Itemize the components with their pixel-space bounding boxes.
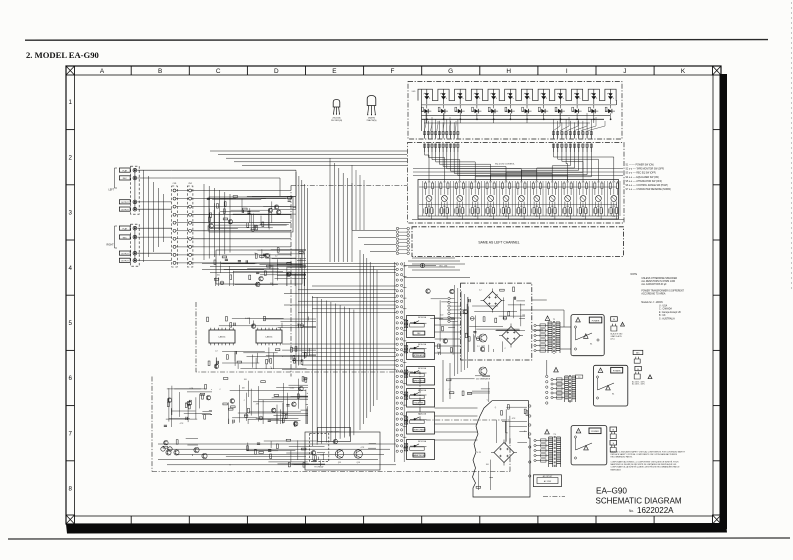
svg-text:REC: REC: [123, 237, 128, 239]
svg-text:2. MODEL EA-G90: 2. MODEL EA-G90: [26, 50, 99, 60]
svg-text:8.2K: 8.2K: [551, 216, 554, 218]
power supply feed cluster (center right): [426, 289, 455, 355]
svg-text:4.7K: 4.7K: [361, 447, 365, 449]
value labels under bottom resistors: [428, 216, 615, 218]
svg-text:10K: 10K: [582, 182, 585, 184]
remote control outlet box: [533, 475, 561, 487]
svg-text:RIGHT: RIGHT: [107, 245, 115, 247]
svg-text:10K: 10K: [566, 206, 569, 208]
svg-text:AC 120V: AC 120V: [544, 480, 552, 483]
svg-text:RECOMMENDED PARTS.: RECOMMENDED PARTS.: [611, 456, 633, 459]
T1 primary taps: [534, 324, 548, 352]
wire verticals upper center second group: [352, 165, 364, 230]
grid column ticks bottom: [131, 516, 654, 524]
bottom shadow bar: [66, 523, 727, 534]
value labels EQ columns: [428, 182, 616, 209]
wire horizontal bus lower: [158, 444, 396, 465]
svg-text:1622022A: 1622022A: [637, 506, 674, 515]
svg-text:100: 100: [486, 464, 489, 466]
svg-text:POWER: POWER: [613, 371, 621, 373]
svg-text:CN2: CN2: [188, 183, 192, 185]
svg-text:10K: 10K: [458, 206, 461, 208]
grid column letters top ruler: [100, 68, 686, 75]
svg-text:A/C: A/C: [636, 352, 640, 355]
svg-text:4: 4: [68, 265, 72, 272]
svg-text:100: 100: [551, 182, 554, 184]
svg-text:SW S4-10A: SW S4-10A: [418, 389, 427, 392]
slide volume resistors VR1-VR13: [426, 196, 617, 202]
svg-text:10K: 10K: [505, 206, 508, 208]
svg-text:REC: REC: [417, 333, 421, 335]
op-amp IC2: [256, 328, 282, 345]
svg-text:10K: 10K: [474, 206, 477, 208]
svg-text:22K: 22K: [597, 182, 600, 184]
component area inner rect EQ board: [418, 180, 619, 220]
svg-text:B: B: [158, 68, 162, 75]
headphone jack J3: [161, 438, 198, 456]
svg-text:15K: 15K: [582, 216, 585, 218]
svg-text:1K: 1K: [521, 216, 523, 218]
wire long horizontal under right channel board: [404, 277, 470, 279]
wire horizontal bus upper to EQ board: [210, 151, 407, 165]
models list: [641, 301, 681, 321]
safety warning fine print: [611, 451, 686, 472]
input selector transistor cluster far left: [164, 385, 212, 428]
junction dots LED bus: [426, 119, 611, 120]
svg-text:LA3161: LA3161: [219, 336, 227, 339]
switch S6 control range: [407, 412, 435, 434]
register mark bottom-left: [66, 515, 75, 524]
svg-text:47K: 47K: [551, 206, 554, 208]
svg-text:SW S5-10A: SW S5-10A: [418, 343, 427, 346]
comb ticks bottom row EQ board: [424, 209, 618, 214]
mains plug J/U/C: [611, 317, 625, 341]
amplifier stage cluster upper (tone control): [207, 196, 296, 232]
muting relay block: [305, 432, 380, 470]
bridge rectifier D23: [494, 443, 514, 463]
svg-text:OUTPUT: OUTPUT: [121, 253, 130, 255]
bridge rectifier D21: [484, 292, 502, 310]
svg-text:PLAY: PLAY: [122, 169, 127, 172]
svg-text:330: 330: [582, 206, 585, 208]
svg-text:S2 o-o ---- TAPE MONITOR SW (O: S2 o-o ---- TAPE MONITOR SW (OFF): [626, 168, 665, 171]
output transistors Q7 Q8: [166, 447, 207, 458]
svg-text:330: 330: [428, 206, 431, 208]
bottom rule line: [8, 538, 790, 539]
connector pin column left of right-channel board: [396, 227, 409, 254]
svg-text:I: I: [566, 68, 568, 75]
svg-text:B : UK: B : UK: [659, 315, 666, 317]
connector jack to left channel: [404, 263, 448, 267]
LED array D1-D12: [424, 89, 614, 104]
regulator transistor Q21: [479, 334, 487, 348]
svg-text:4.7K: 4.7K: [535, 182, 538, 184]
svg-text:PLAY: PLAY: [122, 227, 127, 230]
svg-text:C: C: [216, 68, 221, 75]
svg-text:100: 100: [320, 454, 323, 456]
svg-text:47K: 47K: [520, 206, 523, 208]
svg-text:7: 7: [68, 430, 72, 437]
svg-text:RY1 RELAY: RY1 RELAY: [314, 466, 324, 469]
svg-text:2SA733(N): 2SA733(N): [367, 119, 377, 122]
transistor package drawing 2SC1845: [331, 100, 342, 123]
wire verticals LED board to pins: [425, 111, 611, 131]
svg-text:D21 GENERATOR: D21 GENERATOR: [476, 378, 491, 381]
svg-text:Q: Q: [495, 407, 497, 409]
wire spine bundle main verticals: [313, 296, 354, 446]
grid row ticks left: [66, 130, 75, 461]
svg-text:15K: 15K: [505, 216, 508, 218]
svg-text:1K: 1K: [444, 216, 446, 218]
board outline LED display PCB: [408, 82, 622, 140]
connector pins LED board bottom left: [424, 131, 460, 139]
dash-dot page divider bottom right: [543, 496, 565, 498]
svg-text:EA–G90: EA–G90: [596, 487, 627, 496]
svg-text:S5 o-o ---- ATTENUATOR SW (OFF: S5 o-o ---- ATTENUATOR SW (OFF): [626, 180, 663, 183]
T2 primary taps: [551, 378, 565, 399]
svg-text:Q15: Q15: [338, 462, 341, 464]
svg-text:G: G: [448, 68, 453, 75]
wire horizontal bundle to pin ladder mid: [282, 344, 396, 369]
svg-text:2.2: 2.2: [275, 256, 278, 258]
svg-text:S1: S1: [590, 344, 592, 346]
svg-text:6: 6: [68, 375, 72, 382]
svg-text:4.7K: 4.7K: [612, 182, 615, 184]
svg-text:R: R: [506, 433, 508, 435]
input jack group RIGHT channel: [107, 224, 140, 266]
svg-text:MAINTENIR LE DEGRÉ DE SÉCURITÉ: MAINTENIR LE DEGRÉ DE SÉCURITÉ DE L'APPA…: [611, 463, 677, 466]
svg-text:ATTENUATOR: ATTENUATOR: [414, 354, 425, 357]
svg-text:C : CANADA: C : CANADA: [659, 308, 672, 311]
svg-text:4.7K: 4.7K: [489, 182, 492, 184]
wire columns inside EQ board: [423, 181, 620, 216]
phones jack sub-circuit: [318, 428, 351, 442]
svg-text:AC 240V – 50Hz: AC 240V – 50Hz: [632, 383, 645, 386]
svg-text:E: E: [332, 68, 336, 75]
switch S3 REC EQ: [407, 316, 435, 338]
svg-text:47K: 47K: [597, 206, 600, 208]
wire stubs pin column to verticals: [450, 299, 468, 322]
wire bus switches to power boards: [435, 300, 547, 440]
svg-text:470: 470: [536, 216, 539, 218]
power transformer T1: [548, 319, 560, 354]
svg-text:4.7K: 4.7K: [458, 182, 461, 184]
wire harness input jacks to CN1/CN2: [137, 170, 171, 262]
svg-text:Models for J : JAPAN: Models for J : JAPAN: [641, 301, 663, 304]
svg-text:S : AUSTRALIA: S : AUSTRALIA: [659, 318, 675, 321]
svg-text:Q16: Q16: [357, 462, 360, 464]
pin column right of lower board: [529, 405, 531, 477]
wire fan EQ board left header to sliders: [425, 152, 568, 181]
power plug unit 2 (Europe): [594, 365, 628, 406]
connector pin column power feed: [448, 297, 450, 322]
svg-text:10K: 10K: [566, 182, 569, 184]
svg-text:C: C: [219, 389, 221, 391]
svg-text:A: A: [100, 68, 105, 75]
relay driver transistors Q15 Q16: [333, 439, 376, 463]
grid row numbers left ruler: [68, 99, 72, 492]
connector pins LED board bottom right: [552, 131, 592, 139]
svg-text:S6 o-o ---- CONTROL RANGE SW (: S6 o-o ---- CONTROL RANGE SW (HIGH): [626, 184, 669, 187]
svg-text:SAME AS LEFT CHANNEL: SAME AS LEFT CHANNEL: [478, 240, 519, 244]
warning triangle T3: [545, 429, 550, 434]
svg-text:POWER TRANSFORMER IS DIFFERENT: POWER TRANSFORMER IS DIFFERENT: [641, 289, 684, 292]
register mark bottom-right: [713, 515, 722, 524]
wire verticals upper center: [330, 158, 352, 262]
svg-text:8.2K: 8.2K: [489, 216, 492, 218]
svg-text:2.2: 2.2: [477, 346, 480, 348]
svg-text:CONTROL RANGE: CONTROL RANGE: [412, 428, 425, 431]
note text block: [631, 273, 685, 295]
long horizontals above EQ inner rect: [413, 169, 623, 176]
main PCB boundary outline: [152, 186, 510, 472]
svg-text:S1: S1: [612, 394, 614, 396]
wire T1 secondary to plug unit 1: [520, 310, 571, 349]
wire spine bundle A: [296, 172, 308, 368]
wire ladder verticals near switches: [395, 262, 404, 462]
svg-text:COMPOSANTS AU SYMBOL ⚠ COMPORT: COMPOSANTS AU SYMBOL ⚠ COMPORTENT CRITIQ…: [611, 461, 680, 464]
grid column ticks top: [131, 66, 654, 75]
wire verticals right-center: [360, 250, 377, 430]
svg-text:SW S2-10A: SW S2-10A: [418, 367, 427, 370]
svg-text:C: C: [270, 367, 272, 369]
connector header CN4 top-right of EQ board: [552, 144, 592, 153]
svg-text:POWER: POWER: [591, 431, 599, 433]
svg-text:LEFT: LEFT: [109, 189, 115, 191]
svg-text:C: C: [505, 348, 507, 350]
wire horizontal bundle to pin ladder upper: [284, 286, 396, 313]
svg-text:S3 o-o ---- REC EQ SW (OFF): S3 o-o ---- REC EQ SW (OFF): [626, 173, 657, 175]
svg-text:H: H: [506, 68, 511, 75]
driver stage cluster left: [219, 377, 308, 427]
svg-text:NOTE: NOTE: [631, 273, 638, 276]
title text no 1622022A: [629, 506, 674, 515]
svg-text:100: 100: [440, 315, 443, 317]
wire fan EQ board right header to sliders: [475, 152, 614, 181]
svg-text:C: C: [449, 389, 451, 391]
svg-text:OUTPUT: OUTPUT: [121, 209, 130, 211]
wire fan LED board bus to left pins: [425, 113, 456, 131]
switch S5 attenuator: [407, 343, 435, 360]
svg-text:10K: 10K: [443, 182, 446, 184]
svg-text:K: K: [681, 68, 686, 75]
svg-text:3: 3: [68, 210, 72, 217]
svg-text:1K: 1K: [428, 216, 430, 218]
wire top jack rows continue right: [172, 170, 296, 196]
board outline right channel (same as left): [412, 227, 623, 257]
svg-text:COMPOSANTS À LA SÛRETÉ QU'AVEC: COMPOSANTS À LA SÛRETÉ QU'AVEC DES PIÈCE…: [611, 466, 681, 469]
warning triangle T2: [554, 367, 559, 372]
svg-text:E : Europe Except UK: E : Europe Except UK: [659, 311, 681, 314]
lower power board cluster: [476, 405, 528, 490]
svg-text:No.: No.: [629, 509, 634, 513]
transistor package drawing 2SA992: [367, 96, 377, 123]
svg-text:4.7K: 4.7K: [474, 182, 477, 184]
wire horizontals inside EQ board: [419, 187, 617, 205]
svg-text:15K: 15K: [613, 216, 616, 218]
svg-text:5: 5: [68, 320, 72, 327]
svg-text:UNLESS OTHERWISE SPECIFIED: UNLESS OTHERWISE SPECIFIED: [641, 278, 677, 280]
wire links to right channel board: [352, 231, 396, 252]
svg-text:4.7K: 4.7K: [504, 182, 507, 184]
svg-text:D: D: [274, 68, 279, 75]
svg-text:2: 2: [68, 154, 72, 161]
input jack group LEFT channel: [109, 166, 140, 214]
svg-text:10K: 10K: [428, 182, 431, 184]
register mark top-left: [66, 66, 75, 75]
svg-text:(TO L CH): (TO L CH): [439, 266, 448, 268]
amplifier stage cluster buffer: [214, 248, 306, 287]
svg-text:8: 8: [68, 486, 72, 493]
svg-text:TAPE MONITOR: TAPE MONITOR: [413, 379, 426, 382]
svg-text:POWER SUPPLY: POWER SUPPLY: [327, 432, 341, 434]
power transformer T3: [549, 434, 561, 468]
svg-text:AC OUTLET: AC OUTLET: [543, 475, 552, 478]
resistor row below sliders EQ board: [425, 202, 617, 214]
svg-text:8.2K: 8.2K: [474, 216, 477, 218]
svg-text:2.2: 2.2: [215, 351, 218, 353]
svg-text:S4 o-o ---- EQUALIZER SW (ON): S4 o-o ---- EQUALIZER SW (ON): [626, 176, 660, 179]
svg-text:U : USA: U : USA: [659, 304, 668, 307]
bridge rectifier D22: [502, 327, 520, 345]
svg-text:100: 100: [217, 275, 220, 277]
svg-text:T3: T3: [553, 434, 556, 436]
connector pin ladder left of switches: [396, 263, 403, 453]
svg-text:1K: 1K: [598, 216, 600, 218]
wire bundle CN strips to main board: [176, 191, 291, 263]
grid row ticks right: [713, 130, 721, 461]
legend switch position list: [626, 165, 672, 191]
regulator transistor Q22: [476, 367, 491, 381]
top rule line: [25, 39, 768, 42]
svg-text:REPLACE SAFETY CRITICAL COMPON: REPLACE SAFETY CRITICAL COMPONENTS ONLY …: [611, 453, 678, 456]
switch S4 equalizer: [407, 389, 435, 408]
svg-text:MARKED ⚠ INDICATES SAFETY CRIT: MARKED ⚠ INDICATES SAFETY CRITICAL COMPO…: [611, 451, 686, 454]
svg-text:EQ & LED CONTROL: EQ & LED CONTROL: [495, 164, 515, 166]
pin ladder left of T2: [546, 360, 548, 404]
A/C selector boxes: [632, 350, 652, 385]
power board components cluster: [463, 287, 525, 352]
resistor pairs above sliders EQ board: [424, 181, 618, 195]
svg-text:10K: 10K: [242, 388, 246, 390]
power supply PCB outline upper: [461, 283, 532, 360]
svg-text:8.2K: 8.2K: [458, 216, 461, 218]
svg-text:SW S6-10A: SW S6-10A: [418, 413, 427, 416]
power plug unit 3 (UK/Australia): [571, 426, 607, 465]
wire fan LED board bus to right pins: [554, 113, 606, 131]
svg-text:10K: 10K: [302, 253, 306, 255]
switch S2 tape monitor: [407, 367, 435, 386]
power supply PCB outline lower: [473, 401, 531, 497]
svg-text:100: 100: [244, 379, 247, 381]
svg-text:4.7K: 4.7K: [477, 452, 481, 454]
svg-text:SW S7-10A: SW S7-10A: [418, 440, 427, 443]
svg-text:Q: Q: [307, 378, 309, 380]
svg-text:2.2: 2.2: [479, 290, 482, 292]
board outline EQ amplifier PCB: [408, 143, 625, 224]
svg-text:47K: 47K: [489, 206, 492, 208]
wire bus right channel board to power area: [408, 258, 465, 270]
driver stage sub-board outline: [196, 302, 510, 420]
wire zigzag LED supply bus: [418, 89, 617, 105]
switch S7 character reverse: [407, 440, 435, 460]
wire verticals left-center: [204, 184, 230, 260]
connector strip CN1: [172, 186, 178, 267]
svg-text:J: J: [623, 68, 626, 75]
right shadow bar: [720, 74, 728, 529]
svg-text:S1 -------- POWER SW (ON): S1 -------- POWER SW (ON): [626, 165, 654, 167]
wire bus LED board horizontals: [422, 89, 617, 131]
T3 primary taps: [534, 439, 549, 462]
components around IC1 IC2: [207, 316, 316, 369]
svg-text:OUTPUT: OUTPUT: [121, 202, 130, 204]
svg-text:1: 1: [68, 99, 72, 106]
svg-text:FABRICANT.: FABRICANT.: [611, 468, 622, 471]
output stage cluster bottom: [226, 439, 325, 467]
wire verticals power feed: [455, 285, 468, 376]
svg-text:POWER: POWER: [592, 320, 600, 322]
connector header CN3 top-left of EQ board: [424, 144, 460, 153]
svg-text:OUTPUT: OUTPUT: [121, 261, 130, 263]
power plug unit 1 (USA/Canada): [571, 315, 604, 356]
svg-text:LA3161: LA3161: [266, 336, 274, 339]
wire stubs ladder to switches: [403, 266, 407, 448]
svg-text:S7 o-o ---- CHARACTER REVERSE: S7 o-o ---- CHARACTER REVERSE (NORM): [626, 188, 672, 191]
svg-text:SCHEMATIC DIAGRAM: SCHEMATIC DIAGRAM: [596, 496, 682, 505]
connector strip CN2: [187, 186, 193, 267]
pre-regulator cluster (above lower board): [447, 376, 491, 402]
svg-text:4.7K: 4.7K: [180, 423, 184, 425]
svg-text:10K: 10K: [495, 294, 499, 296]
svg-text:ALL RESISTORS IN OHMS 1/4W: ALL RESISTORS IN OHMS 1/4W: [641, 280, 676, 283]
svg-text:2SC1815(N): 2SC1815(N): [331, 120, 342, 122]
svg-text:8.2K: 8.2K: [566, 216, 569, 218]
svg-text:T1: T1: [553, 319, 556, 321]
border frame inner: [75, 75, 714, 516]
svg-text:F: F: [391, 68, 395, 75]
svg-text:47K: 47K: [256, 404, 260, 406]
svg-text:2.2K: 2.2K: [612, 206, 615, 208]
svg-text:SW S3-10A: SW S3-10A: [418, 316, 427, 319]
power transformer T2: [565, 375, 583, 403]
svg-text:4.7K: 4.7K: [512, 418, 516, 420]
transistor row Q1-Q12 on LED board: [421, 105, 615, 113]
svg-text:330: 330: [443, 206, 446, 208]
wire bus EQ board bottom: [412, 214, 624, 220]
svg-text:(U/C): (U/C): [611, 338, 615, 340]
svg-text:REC: REC: [123, 178, 128, 180]
svg-text:10K: 10K: [520, 182, 523, 184]
mains plugs B/S: [610, 427, 617, 452]
border frame outer: [66, 66, 721, 524]
svg-text:CHARACTER REV: CHARACTER REV: [412, 454, 426, 457]
svg-text:C: C: [244, 400, 246, 402]
svg-text:CN1: CN1: [173, 183, 177, 185]
svg-text:C: C: [487, 399, 489, 401]
warning triangle T1: [545, 316, 550, 321]
svg-text:EQUALIZER: EQUALIZER: [415, 401, 425, 404]
wire horizontal bus row3: [202, 263, 396, 272]
svg-text:ALL CAPACITORS IN µF: ALL CAPACITORS IN µF: [641, 283, 667, 286]
register mark top-right: [713, 66, 722, 75]
svg-text:LED: LED: [412, 91, 416, 93]
svg-text:330: 330: [536, 206, 539, 208]
op-amp IC1: [209, 328, 235, 345]
svg-text:ACCORDING TO AREA: ACCORDING TO AREA: [641, 292, 666, 295]
right page-edge mark: [791, 2, 793, 290]
